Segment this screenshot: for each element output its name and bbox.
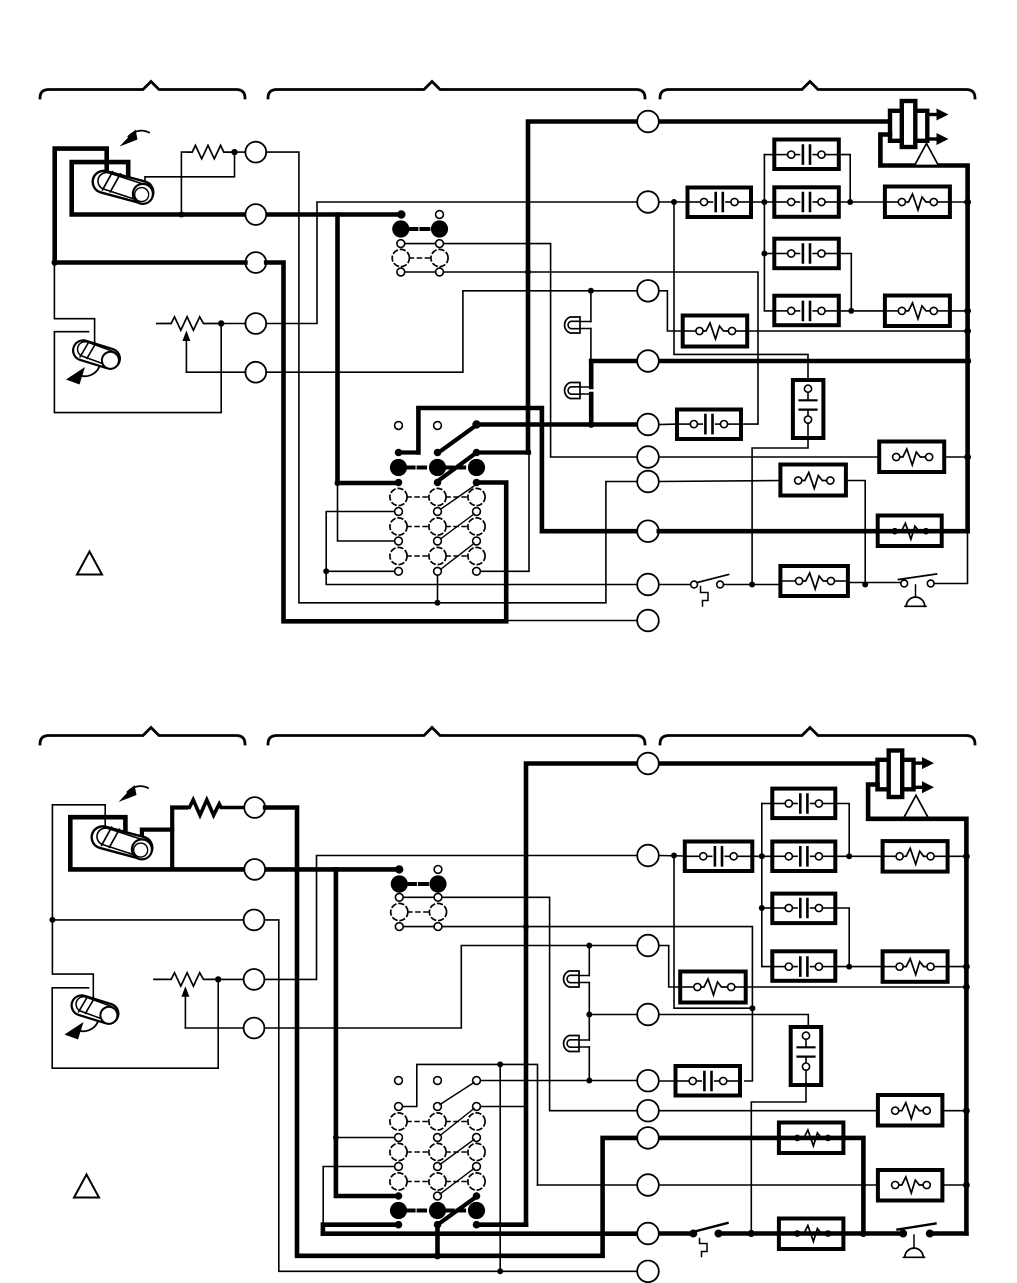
wire heavy T2b riser to matrix col1 bottom [336, 869, 395, 1196]
subbase terminal M3b [637, 935, 659, 957]
relay coil box bottom [680, 972, 746, 1003]
wire T3 to T4 right link [839, 254, 852, 311]
wire heating bulb electrode to R junction [145, 152, 235, 186]
subbase terminal M6 [637, 446, 659, 468]
wire left bus to T1b box [762, 803, 773, 805]
wire T2 junction to R1 [839, 201, 885, 203]
wire M2b junction riser down to cap riser [674, 856, 752, 1009]
system switch upper: bridge bar closed [409, 227, 431, 231]
wire heavy main bus riser to M1b [526, 764, 891, 1225]
wire link to R2b [835, 966, 882, 968]
arrow rotate cooling bottom [76, 1022, 98, 1032]
contact box M5capb [676, 1066, 741, 1096]
wire left bus to T1 [764, 154, 774, 156]
wire M2cap to cap bank bus [751, 201, 774, 203]
junction dot M11b riser on jog line [497, 1061, 503, 1067]
junction dot R1 at right bus [964, 199, 971, 206]
wire heavy col3 row to bus riser bottom [477, 1222, 527, 1227]
contact box bank T2 [774, 187, 839, 217]
warning triangle under motor top [915, 144, 939, 166]
junction dot T3 heavy left corner [52, 259, 58, 265]
wire heavy T1b right riser to bottom bus [265, 808, 637, 1256]
wire resistor left lead down to T2 line [181, 152, 187, 214]
wire col2 bottom drop to L2 [437, 575, 439, 603]
wire heavy col1 row to bus corner bottom [323, 1225, 399, 1234]
wire T4b row to M2b riser [218, 856, 637, 980]
system switch upper: open contacts dashed [392, 249, 409, 266]
wire bottom contacts to RC cap riser [405, 272, 758, 424]
wire M3b right to relay box bottom [659, 946, 680, 988]
wire cooling bulb enclosure loop bottom [52, 979, 218, 1068]
contact box bank T3b [772, 894, 835, 924]
subbase terminal M3 [637, 280, 659, 302]
junction dot R2 at right bus [964, 308, 971, 315]
heater box R3b [878, 1095, 943, 1126]
system switch upper: lower contacts row [397, 240, 405, 248]
subbase terminal M2 [637, 191, 659, 213]
wire heavy M5 row matrix to circle [477, 422, 638, 427]
wire M2 row to cap box [659, 201, 688, 203]
indicator lamp 1 bottom [564, 971, 590, 987]
wire T3b row [52, 920, 637, 1271]
matrix big closed contacts row [390, 459, 407, 476]
subbase terminal M9 [637, 574, 659, 596]
wire stub row571 [326, 570, 394, 572]
wire heavy M7b row through R4b to drop [659, 1138, 864, 1234]
wire heavy motor loop to right bus bottom [868, 785, 966, 1234]
junction dot R1b at right bus [963, 853, 970, 860]
lower matrix bottom: row 1106 contacts [395, 1103, 403, 1111]
junction dot T3b line left [49, 917, 55, 923]
subbase terminal M4 [637, 350, 659, 372]
wire M9 to breaker [659, 584, 691, 586]
heater box R3 [879, 442, 944, 473]
wire dots row bottom matrix [395, 1221, 403, 1229]
junction dot col2 drop on bottom bus [434, 1252, 441, 1259]
wire R3 to right bus [944, 456, 967, 458]
wire R5b to right bus [942, 1184, 966, 1186]
wire heavy aux switch to right bus corner bottom [934, 1231, 967, 1236]
bridge dashes closed row [407, 466, 468, 470]
wire heavy inner loop heating bulb to T2 bottom [70, 817, 244, 869]
brace thermostat section bottom [40, 728, 245, 745]
wire heavy anticipator riser bottom [172, 808, 186, 870]
big closed contacts row bottom [390, 1202, 407, 1219]
wire heavy T3 row [55, 263, 507, 622]
junction dot heavy jog col1 [335, 480, 341, 486]
heater box R5b [878, 1170, 943, 1201]
arrow rotate heating [129, 131, 150, 137]
junction dot lamp riser on M3b row [586, 943, 592, 949]
wire thin lamp riser M3 to M4 [590, 291, 592, 361]
arrow rotate heating bottom [128, 786, 149, 792]
wire M4b row to vert cap bottom [589, 1015, 808, 1028]
wire vert cap bottom to breaker row [752, 438, 808, 585]
wire cooling bulb upper electrode bottom [52, 920, 93, 1000]
terminal T1b [244, 797, 265, 818]
wire relay box W to right bus [747, 330, 967, 332]
subbase terminal M6b-bottom [637, 1100, 659, 1122]
aux limit switch with alarm top [899, 574, 937, 606]
cap bank left bus bottom [762, 804, 773, 967]
vertical capacitor box top diagram [793, 380, 824, 438]
terminal T3b [244, 910, 265, 931]
junction dot resistor lead on T2 line [178, 212, 184, 218]
cap bank left bus [764, 155, 774, 311]
wire heavy bulb electrode to anticipator riser bottom [142, 830, 172, 842]
relay coil box W [683, 316, 748, 347]
system switch upper: col2 top contact [436, 211, 444, 219]
junction dot left bus T3b [759, 905, 765, 911]
wire breaker to R6b heavy [723, 1231, 779, 1236]
contact box bank T4b [772, 951, 835, 981]
junction dot cap bank left bus T2b [759, 853, 765, 859]
wire thin col3 riser to bottom row [481, 453, 530, 572]
wire heavy col2 drop to bottom bus [435, 1225, 440, 1256]
subbase terminal M5 [637, 414, 659, 436]
indicator lamp 2 [565, 383, 592, 399]
matrix wire dots row2 [395, 479, 403, 487]
heavy blade col3 mid to col2 [440, 454, 475, 480]
wire R1 to right bus [950, 201, 968, 203]
junction dot R3b at right bus [963, 1107, 970, 1114]
wire heavy outer loop heating bulb [55, 149, 107, 263]
wire heavy M4 row [591, 359, 967, 364]
brace thermostat section top [40, 82, 245, 99]
wire R3b to right bus [942, 1110, 966, 1112]
terminal T2 [245, 204, 266, 225]
subbase terminal M5b [637, 1070, 659, 1092]
indicator lamp 2 bottom [564, 1036, 590, 1052]
junction dot vert cap riser at breaker row [749, 582, 755, 588]
junction dot M11b riser at M11b row [497, 1268, 503, 1274]
junction dot R3 at right bus [964, 454, 971, 461]
wire thin outer loop heating bulb bottom [52, 805, 105, 920]
wire T1b to T2b right link bottom [835, 804, 849, 857]
wire vert cap bottom to breaker row bottom [751, 1085, 806, 1234]
wire M6b row to R5 [659, 481, 781, 482]
junction dot cooling anticipator to T4 [218, 320, 224, 326]
arrow rotate cooling [78, 367, 100, 377]
terminal T5 [245, 362, 266, 383]
system switch upper bottom: bottom contacts row [395, 923, 403, 931]
wire M2b row to cap box bottom [659, 855, 773, 858]
wire cooling bulb enclosure loop to anticipator [54, 324, 221, 413]
heater box R4b heavy [779, 1123, 844, 1154]
wire heavy motor loop to right bus [880, 135, 967, 532]
wire heavy R6b to aux switch [843, 1231, 899, 1236]
resistor cooling anticipator top [157, 317, 221, 330]
wire M5b row from matrix col3 [481, 1080, 638, 1082]
contact box bank T3 [774, 239, 839, 269]
wire stub row1137 [336, 1137, 395, 1139]
wire M6b row to R3b [659, 1110, 878, 1112]
junction dot cooling anticipator to T4b [215, 976, 221, 982]
subbase terminal M2b [637, 845, 659, 867]
wire heavy M7 row through R4 to bus corner [659, 529, 968, 534]
thin blade diagonals bottom matrix [440, 1083, 474, 1195]
adjust arrow cooling anticipator bottom [184, 990, 186, 1028]
heater box R6b heavy [779, 1219, 844, 1250]
wire M5b to cap box bottom [659, 1080, 676, 1082]
junction dot M4 heavy at right bus [964, 357, 971, 364]
junction dot T1bT2b link [846, 853, 852, 859]
wire contacts row to G riser bottom [403, 897, 637, 1110]
mercury switch cooling bulb bottom [69, 992, 121, 1026]
wire R1b to right bus [948, 855, 967, 857]
wire heavy col3 row1 stub to thin riser [477, 450, 530, 454]
junction dot lamp riser on M5 row [588, 421, 595, 428]
junction dot riser row571 [323, 568, 329, 574]
wire T1 lead [235, 151, 246, 153]
junction dot on heavy bus at y272 [525, 269, 531, 275]
junction dot lamp riser on M4b row [586, 1012, 592, 1018]
system switch upper bottom: open contacts dashed [391, 903, 408, 920]
contact box bank T1b [772, 789, 835, 819]
junction dot T1T2 link [847, 199, 853, 205]
lower matrix bottom: open contact rows dashed [390, 1113, 407, 1130]
heater box R6 [780, 566, 848, 596]
wire T4 row to W riser [221, 202, 637, 324]
subbase terminal M10b [637, 1223, 659, 1245]
wire M11b riser [499, 1064, 501, 1271]
wire M3 to heat relay box [659, 291, 683, 331]
wire left bus to T3b box [762, 907, 773, 909]
wire heavy main bus riser to M1 [528, 122, 893, 453]
wire col3 row2 to heavy bus bottom [481, 1106, 527, 1108]
wire heavy M10b breaker bus [323, 1231, 690, 1236]
wire-end dot T2b at system switch bottom [395, 865, 403, 873]
system switch upper: bottom contacts row [397, 268, 405, 276]
matrix wire dots row1 [395, 449, 403, 457]
heater box R1b [883, 841, 948, 872]
brace subbase section bottom [268, 728, 645, 745]
heat motor actuator top [890, 101, 949, 147]
wire bottom contacts to cap riser bottom [403, 927, 752, 1081]
heater box R4 heavy [878, 516, 942, 547]
wire contacts row to G riser / M6 [405, 244, 638, 457]
wire left bus to T3 [764, 253, 774, 255]
heavy blade col3 top to col2 [440, 427, 475, 452]
junction dot relay line at right bus bottom [963, 984, 970, 991]
junction dot R2b at right bus [963, 963, 970, 970]
subbase terminal M11b [637, 1261, 659, 1283]
wire heavy T2b to switch dot [265, 867, 399, 872]
wire R2b to right bus [948, 966, 967, 968]
contact box M5cap [677, 410, 741, 440]
junction dot lamp riser on M3 row [588, 288, 594, 294]
subbase terminal M7 [637, 520, 659, 542]
junction dot M2b riser joins cap riser [749, 1005, 755, 1011]
wire-end dot M5 heavy at matrix col3 [472, 420, 480, 428]
subbase terminal M1b [637, 753, 659, 775]
wire heavy inner loop heating bulb to T2 [72, 162, 246, 214]
junction dot left bus T3 [761, 251, 767, 257]
resistor heat anticipator bottom heavy [186, 800, 244, 815]
contact box bank T4 [774, 296, 839, 326]
subbase terminal M4b [637, 1004, 659, 1026]
mercury switch cooling bulb [71, 337, 123, 371]
wire T1 right riser to L2 [266, 152, 637, 603]
subbase terminal M1 [637, 111, 659, 133]
junction dot T3T4 link [848, 308, 854, 314]
heater box R5 [780, 465, 846, 496]
warning triangle left top-diagram [77, 552, 102, 575]
wire relay box bottom to right bus [746, 986, 966, 988]
wire matrix col1 left stub row 511 and riser to M9 [326, 512, 637, 585]
junction dot anticipator to T1 [231, 149, 237, 155]
brace system section top [660, 82, 975, 99]
wire T4 junction to R2 [839, 310, 885, 312]
heater box R1 [885, 187, 950, 218]
wire-end dot T2 at system switch [397, 210, 405, 218]
resistor heat anticipator top [188, 145, 235, 158]
heavy blade col3 to col2 bottom [440, 1198, 475, 1223]
resistor cooling anticipator bottom [154, 973, 218, 986]
wire heavy matrix riser to M7 [418, 408, 637, 531]
row 1196 contacts: col1 filled col2 open col3 filled [395, 1192, 403, 1200]
junction dot T2b riser stub row1137 [333, 1135, 339, 1141]
junction dot T3bT4b link [846, 964, 852, 970]
wire link to R1b [835, 855, 882, 857]
junction dot R5b at right bus [963, 1182, 970, 1189]
wire T5b row to M3b riser [185, 946, 637, 1029]
wire cooling bulb upper electrode from T3 net [54, 263, 94, 347]
system switch upper bottom: mid contacts row [395, 893, 403, 901]
system switch upper bottom: col2 top contact [434, 866, 442, 874]
junction dot col2 drop on L2 [435, 600, 441, 606]
junction dot lamp riser on M5b row [586, 1078, 592, 1084]
terminal T4 [245, 313, 266, 334]
junction dot on heavy bus at y926 [523, 924, 529, 930]
junction dot right of M2 [671, 199, 677, 205]
wire heavy lamp riser M4 to M5 [589, 361, 594, 425]
thin blade diagonals matrix [441, 486, 474, 569]
mercury switch heating bulb [90, 167, 156, 206]
junction dot relay W line at right bus [964, 328, 971, 335]
circuit breaker manual reset bottom [689, 1223, 727, 1257]
wire M10 row from heavy corner [506, 620, 637, 622]
junction dot vert cap riser at breaker row bottom [748, 1230, 755, 1237]
wire R2 to right bus [950, 310, 968, 312]
junction dot R5 drop at breaker row [862, 582, 868, 588]
circuit breaker manual reset top [691, 575, 729, 607]
contact box bank T2b [772, 842, 835, 872]
terminal T1 [245, 142, 266, 163]
wire M6 row to R3 [659, 456, 879, 458]
junction dot M7b drop at breaker bus [860, 1230, 867, 1237]
wire T3b to T4b right link bottom [835, 908, 849, 967]
wire M2 junction riser to vert cap [674, 202, 808, 382]
wire col1 row2 jog riser to M9b and M11b [403, 1064, 538, 1185]
subbase terminal M9b [637, 1174, 659, 1196]
wire stub row541 riser from heavy junction [338, 483, 395, 541]
aux limit switch with alarm bottom [898, 1224, 936, 1258]
junction dot cap bank left bus T2 [761, 199, 767, 205]
subbase terminal M7b [637, 1127, 659, 1149]
wire thin lamp riser M3b to M4b to M5b [588, 946, 590, 1081]
wire heavy T2 to switch dot [266, 212, 401, 217]
lower matrix bottom: indicator contacts [395, 1077, 403, 1085]
wire heavy T2 riser to matrix col1 [338, 215, 395, 484]
heater box R2 [885, 296, 950, 327]
matrix open contact rows dashed [390, 488, 407, 505]
contact box M2capb [685, 842, 753, 872]
wire R6 to aux switch [848, 582, 901, 584]
vertical capacitor box bottom diagram [791, 1027, 822, 1085]
contact box bank T1 [774, 140, 839, 170]
terminal T2b [244, 859, 265, 880]
heater box R2b [883, 951, 948, 982]
terminal T3 [245, 252, 266, 273]
terminal T4b [244, 969, 265, 990]
system switch upper: moving contacts closed [392, 220, 409, 237]
wire M5 to cap box M5cap [659, 423, 677, 425]
warning triangle under motor bottom [904, 795, 928, 817]
adjust arrow cooling anticipator [185, 334, 187, 372]
wire T5 row to Y riser [186, 291, 637, 372]
wire col1 row 1166 stub corner to heavy corner [323, 1167, 394, 1225]
brace subbase section top [268, 82, 645, 99]
warning triangle left bottom-diagram [74, 1175, 99, 1198]
mercury switch heating bulb bottom [89, 823, 155, 862]
dashed bridge open [409, 257, 431, 259]
brace system section bottom [660, 728, 975, 745]
fan/system switch lower matrix top indicator contacts [395, 422, 403, 430]
contact box M2cap [688, 188, 752, 218]
junction dot right of M2b [671, 853, 677, 859]
wire breaker to R6 [724, 584, 781, 586]
wire aux switch corner up to heavy bus [934, 531, 967, 583]
wire T1 to T2 right link [839, 155, 850, 202]
indicator lamp 1 [565, 317, 591, 333]
wire heavy matrix col1 jog [399, 450, 419, 454]
heat motor actuator bottom [878, 751, 935, 798]
subbase terminal M10 [637, 610, 659, 632]
system switch upper bottom: closed contacts [391, 875, 408, 892]
wire M9b row [538, 1184, 878, 1186]
wire R5 right drop to breaker row [846, 481, 865, 585]
terminal T5b [244, 1018, 265, 1039]
subbase terminal M6b [637, 471, 659, 493]
